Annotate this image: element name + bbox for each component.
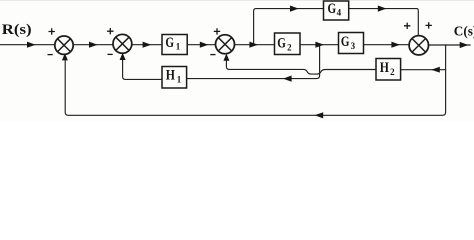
- sign - at S2: [108, 53, 113, 55]
- wire S3 to G2: [234, 44, 274, 46]
- arrow output C(s): [460, 42, 469, 48]
- wire S1 to S2: [73, 44, 113, 46]
- arrow into G3: [315, 42, 324, 48]
- wire H2 to S3 bottom with hop over H1 branch: [226, 60, 376, 74]
- arrow up into S1 bottom: [62, 53, 68, 60]
- summing junction S4: [409, 36, 428, 55]
- sign + at S3: [214, 28, 220, 34]
- sign - at S1: [48, 54, 53, 56]
- svg-text:G: G: [328, 1, 337, 17]
- wire H1 to S2 bottom: [123, 60, 162, 80]
- svg-text:2: 2: [287, 42, 292, 52]
- block G3: [339, 33, 364, 54]
- arrow left into H1: [283, 76, 292, 82]
- wire output branch down to bottom feedback and up into S1: [65, 45, 445, 115]
- sign + at S2: [107, 28, 113, 34]
- svg-text:1: 1: [176, 42, 181, 52]
- svg-text:C(s): C(s): [454, 24, 474, 39]
- wire G1 to S3: [187, 44, 215, 46]
- sign + right at S4: [426, 22, 432, 28]
- block G4: [324, 1, 349, 20]
- wire S2 to G1: [132, 44, 162, 46]
- summing junction S3: [216, 35, 235, 54]
- wire G2 to G3 with branch node: [300, 44, 339, 46]
- summing junction S2: [113, 34, 132, 53]
- arrow into G2: [249, 42, 258, 48]
- block H2: [376, 59, 401, 81]
- arrow into S2: [89, 42, 98, 48]
- summing junction S1: [55, 36, 73, 54]
- svg-text:R(s): R(s): [2, 22, 32, 38]
- arrow left on bottom feedback: [315, 112, 324, 118]
- sign + left at S4: [404, 23, 410, 29]
- wire G3 to S4: [364, 44, 410, 46]
- svg-text:G: G: [165, 35, 174, 51]
- wire input R(s) to S1: [0, 44, 55, 46]
- wire branch down to H1: [187, 45, 319, 79]
- wire riser to G4: [254, 9, 324, 45]
- scan edge top: [0, 0, 474, 1]
- block G2: [275, 33, 301, 55]
- arrow into S1: [27, 42, 36, 48]
- svg-text:H: H: [380, 60, 390, 76]
- sign + at S1: [49, 28, 55, 34]
- arrow up into S2 bottom: [120, 53, 126, 60]
- svg-text:4: 4: [337, 8, 342, 18]
- svg-text:2: 2: [390, 67, 395, 77]
- wire G4 to S4 top: [349, 9, 419, 36]
- wire tap to H2: [401, 69, 446, 71]
- arrow into S4: [391, 42, 400, 48]
- svg-text:3: 3: [351, 41, 356, 51]
- svg-text:G: G: [341, 34, 350, 50]
- wire S4 to C(s) output: [428, 44, 470, 46]
- arrow into G1: [143, 42, 152, 48]
- sign - at S3: [210, 54, 215, 56]
- svg-text:G: G: [277, 36, 286, 52]
- arrow into S3: [200, 42, 209, 48]
- arrow G4 line toward S4: [378, 6, 387, 12]
- block H1: [162, 67, 187, 89]
- svg-text:1: 1: [177, 75, 182, 85]
- arrow into G4: [290, 6, 299, 12]
- block G1: [162, 35, 187, 55]
- svg-text:H: H: [166, 68, 176, 84]
- arrow up into S3 bottom: [223, 54, 229, 61]
- arrow left into H2: [431, 67, 440, 73]
